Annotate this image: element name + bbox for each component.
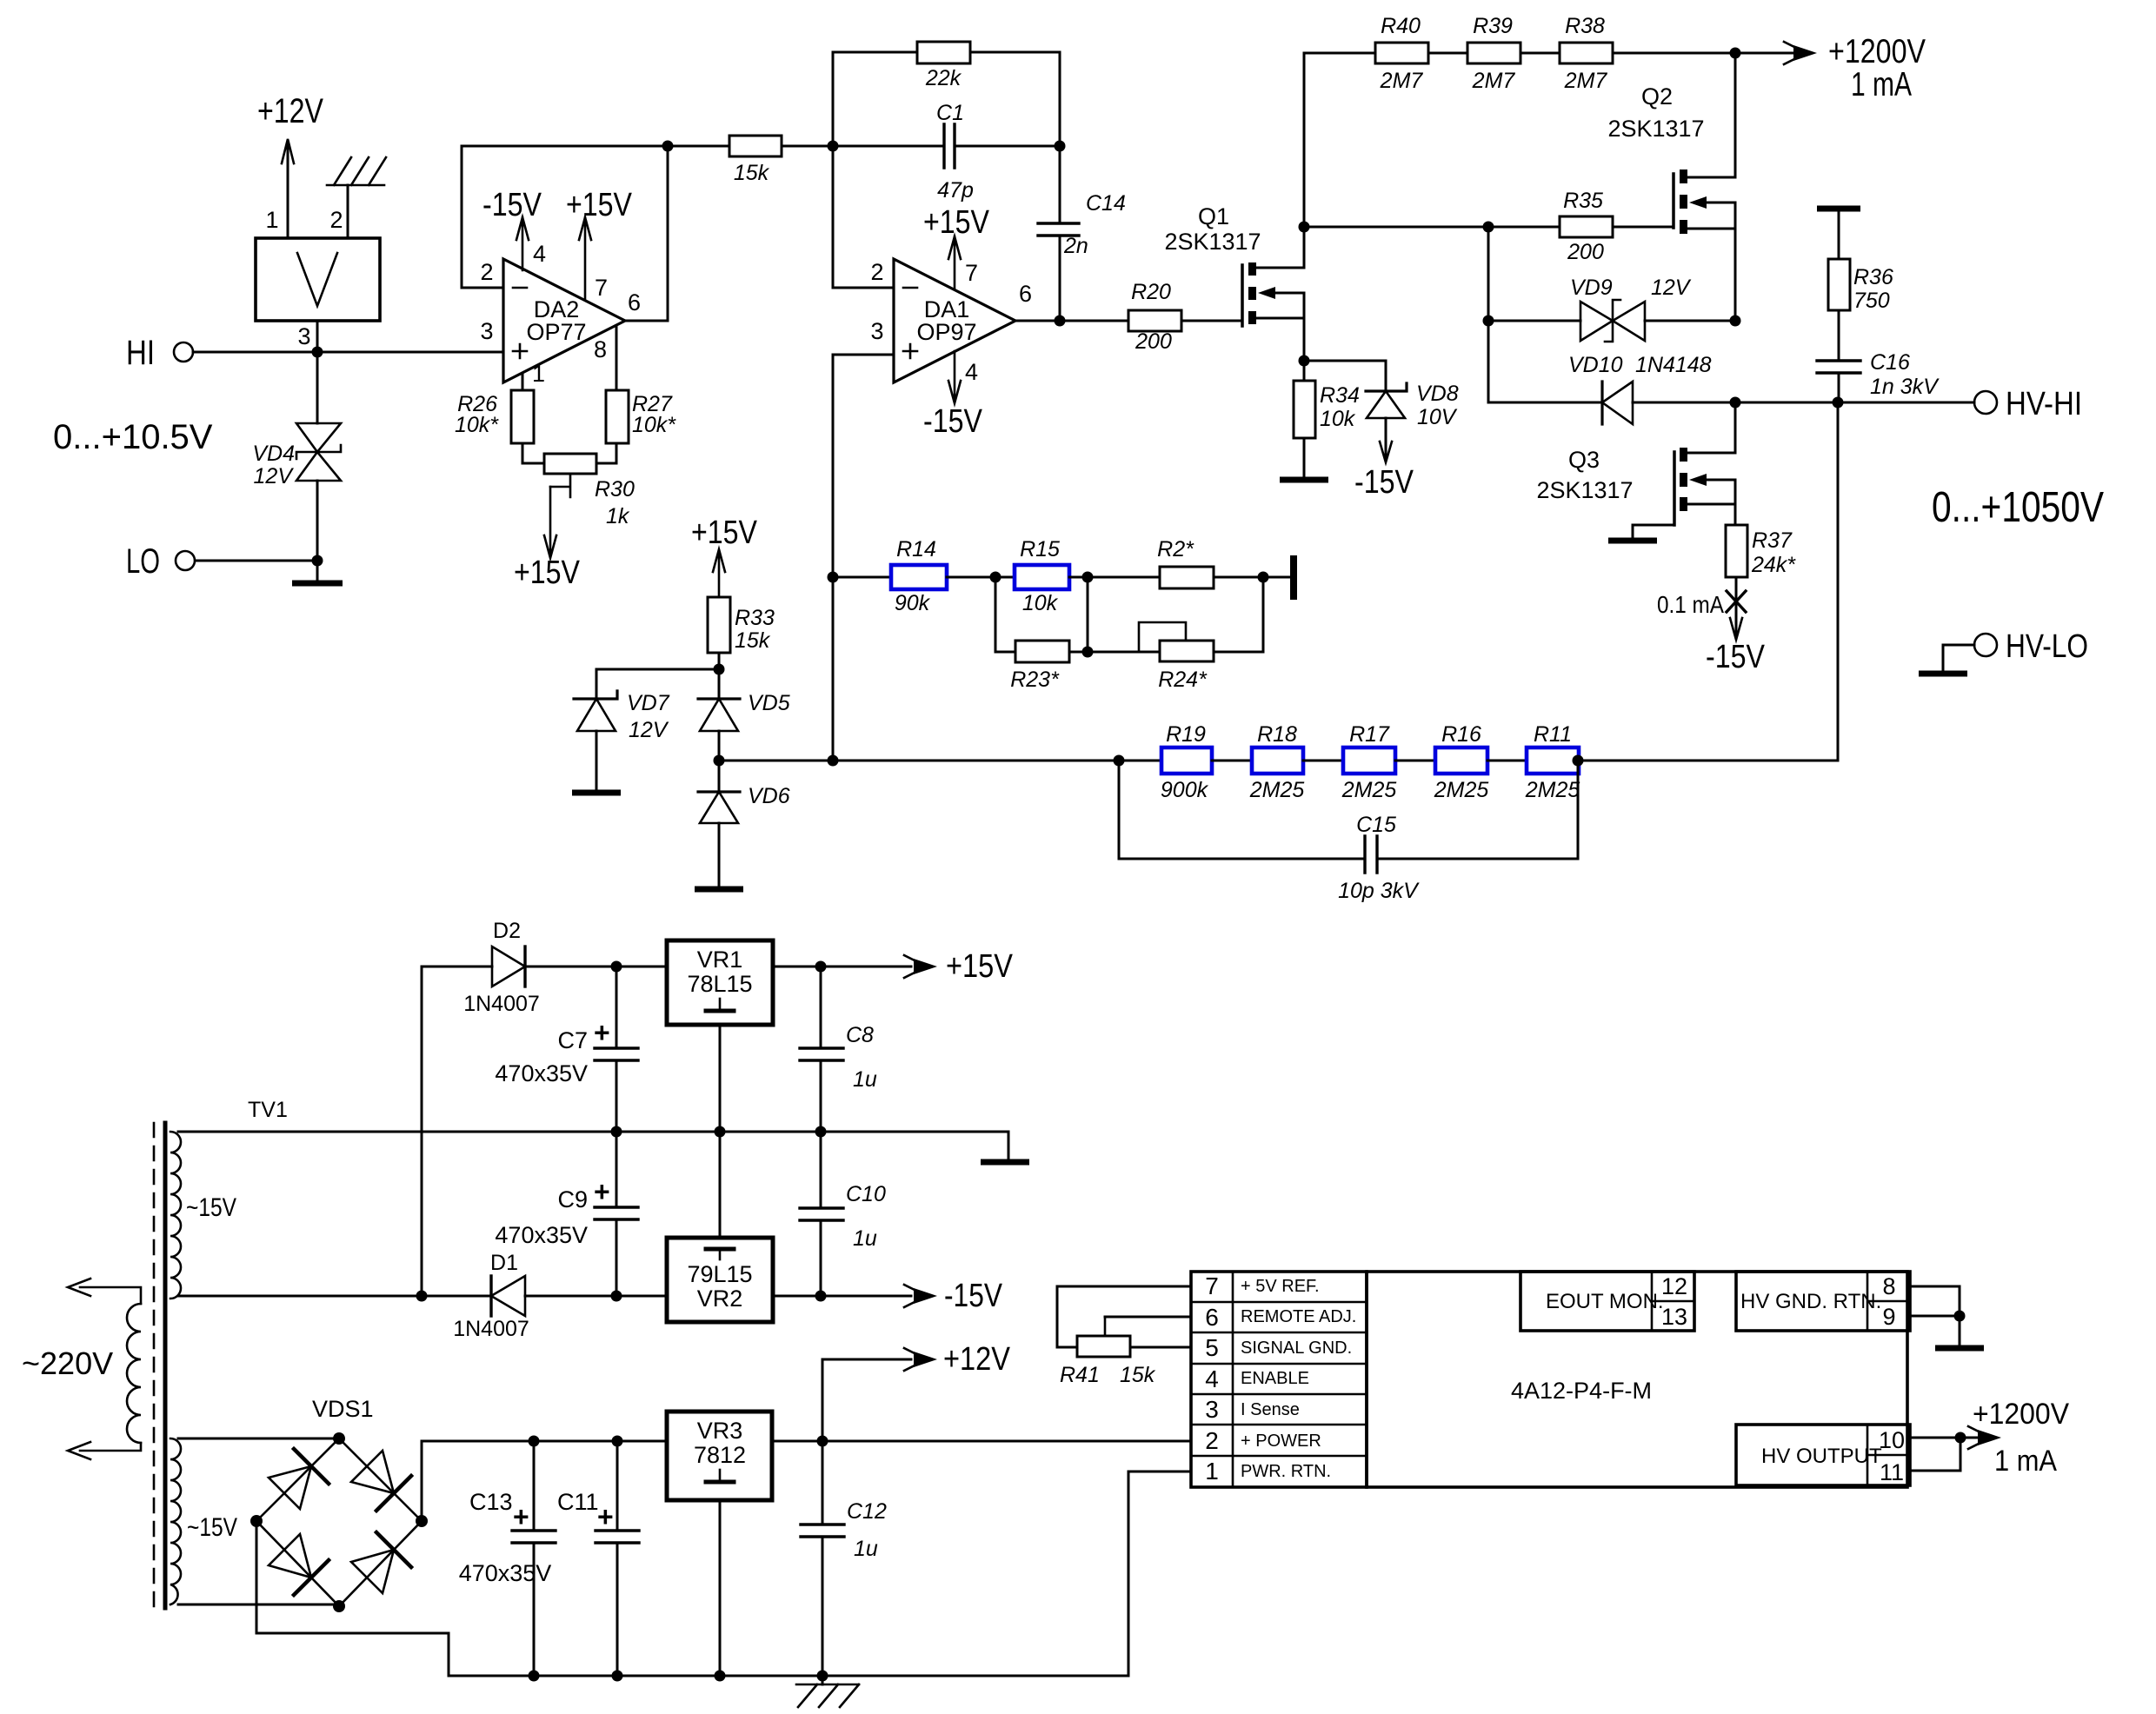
resistor R18 bbox=[1249, 722, 1305, 802]
junction dot C15 right bbox=[1573, 755, 1584, 767]
svg-text:7: 7 bbox=[1205, 1272, 1219, 1299]
node +12V rail label bbox=[257, 92, 323, 130]
svg-text:VR1: VR1 bbox=[697, 947, 743, 973]
svg-text:10V: 10V bbox=[1417, 405, 1458, 429]
wire winding to VDS1 top bbox=[178, 1438, 339, 1440]
svg-text:-15V: -15V bbox=[1354, 464, 1414, 501]
svg-text:0...+10.5V: 0...+10.5V bbox=[53, 418, 213, 456]
svg-text:+ POWER: + POWER bbox=[1241, 1432, 1321, 1451]
junction dot Q2 source node bbox=[1730, 316, 1741, 327]
svg-text:2M25: 2M25 bbox=[1525, 778, 1580, 802]
terminal HV-LO with ground bbox=[1919, 628, 2088, 674]
svg-text:1N4007: 1N4007 bbox=[463, 992, 540, 1016]
wire R19 row left bbox=[833, 760, 1161, 762]
svg-text:R36: R36 bbox=[1853, 265, 1893, 289]
svg-text:4: 4 bbox=[965, 359, 978, 385]
junction dot C13 top bbox=[529, 1436, 540, 1447]
svg-text:OP97: OP97 bbox=[916, 319, 976, 345]
SECTION: middle resistor networks bbox=[572, 515, 1838, 903]
junction dot divider left node bbox=[714, 755, 725, 767]
svg-text:VD8: VD8 bbox=[1416, 382, 1459, 406]
ground under VD7 bbox=[572, 731, 621, 793]
svg-text:PWR. RTN.: PWR. RTN. bbox=[1241, 1462, 1331, 1481]
junction dot DA2 feedback node bbox=[662, 141, 674, 152]
resistor R11 bbox=[1525, 722, 1580, 802]
wire to VD7 bbox=[596, 669, 719, 699]
wire node to DA1 pin2 bbox=[833, 146, 894, 288]
SECTION: module bbox=[1057, 1272, 2069, 1676]
svg-text:~15V: ~15V bbox=[187, 1513, 237, 1542]
svg-text:C1: C1 bbox=[936, 101, 964, 125]
svg-text:C12: C12 bbox=[847, 1499, 887, 1524]
svg-text:1u: 1u bbox=[854, 1537, 878, 1561]
svg-text:90k: 90k bbox=[895, 591, 931, 615]
svg-text:-15V: -15V bbox=[944, 1278, 1003, 1314]
pin 2 label bbox=[870, 259, 883, 285]
ground at Q3 gate bbox=[1608, 525, 1674, 541]
svg-text:C7: C7 bbox=[557, 1027, 588, 1053]
wire VD4 to LO node bbox=[316, 481, 319, 561]
wire R33 to VD5 bbox=[718, 653, 721, 699]
svg-text:R41: R41 bbox=[1060, 1363, 1100, 1387]
svg-text:-15V: -15V bbox=[923, 403, 983, 440]
svg-text:2n: 2n bbox=[1063, 234, 1088, 258]
chassis ground at V-box pin2 bbox=[327, 157, 386, 236]
pin 7 supply arrow to +15V bbox=[566, 187, 633, 301]
svg-text:C11: C11 bbox=[557, 1489, 599, 1515]
wire VR1 output bbox=[773, 966, 911, 968]
svg-text:EOUT MON.: EOUT MON. bbox=[1546, 1290, 1664, 1313]
svg-text:R23*: R23* bbox=[1010, 668, 1060, 692]
junction dot R14-R15 bbox=[990, 572, 1001, 583]
capacitor C13 bbox=[459, 1441, 556, 1676]
svg-text:2: 2 bbox=[870, 259, 883, 285]
ground bar under R34 bbox=[1280, 438, 1328, 480]
arrow +1200V 1 mA top bbox=[1735, 33, 1926, 103]
SECTION: DA2 bbox=[455, 141, 676, 592]
capacitor C15 bbox=[1119, 761, 1578, 903]
potentiometer R30 bbox=[544, 454, 635, 528]
svg-text:12V: 12V bbox=[254, 464, 295, 488]
svg-text:+ 5V REF.: + 5V REF. bbox=[1241, 1277, 1320, 1296]
resistor R20 bbox=[1128, 280, 1181, 354]
junction dot C7 bottom bbox=[611, 1126, 622, 1138]
svg-text:VD9: VD9 bbox=[1570, 276, 1613, 300]
wire bottom ground rail bbox=[449, 1675, 1128, 1677]
svg-text:C15: C15 bbox=[1356, 813, 1396, 837]
pin 2 + POWER bbox=[1205, 1427, 1321, 1454]
pin 7 + 5V REF. bbox=[1205, 1272, 1319, 1299]
svg-text:15k: 15k bbox=[734, 161, 770, 185]
svg-text:+1200V: +1200V bbox=[1973, 1398, 2069, 1431]
svg-text:VDS1: VDS1 bbox=[312, 1396, 374, 1422]
svg-text:R15: R15 bbox=[1020, 537, 1060, 561]
arrow +15V above R33 bbox=[691, 515, 758, 597]
resistor 22k feedback bbox=[833, 42, 1060, 146]
svg-text:C13: C13 bbox=[469, 1489, 513, 1515]
pin 6 label bbox=[628, 289, 641, 316]
capacitor C10 bbox=[800, 1132, 886, 1296]
wire VD10 row bbox=[1488, 321, 1735, 402]
bridge rectifier VDS1 bbox=[250, 1396, 428, 1612]
svg-text:R20: R20 bbox=[1131, 280, 1171, 304]
svg-text:10p 3kV: 10p 3kV bbox=[1338, 879, 1420, 903]
wire R19-R18 bbox=[1212, 760, 1252, 762]
wire VR1 ground lead bbox=[719, 1025, 722, 1132]
svg-text:+: + bbox=[597, 1501, 614, 1532]
terminal HI bbox=[126, 334, 193, 372]
svg-text:8: 8 bbox=[594, 336, 607, 362]
junction dot C7 top bbox=[611, 961, 622, 973]
svg-text:R37: R37 bbox=[1752, 528, 1793, 553]
svg-text:470x35V: 470x35V bbox=[459, 1560, 552, 1586]
wire pin10 pin11 output bbox=[1910, 1438, 1960, 1471]
junction dot VR gnd rail bbox=[715, 1126, 726, 1138]
resistor R2* bbox=[1157, 537, 1214, 588]
svg-text:2SK1317: 2SK1317 bbox=[1536, 477, 1633, 503]
bridge diode bottom-right bbox=[351, 1532, 411, 1593]
wire HV-HI row bbox=[1735, 402, 1974, 404]
wire feedback riser to divider bbox=[1837, 402, 1840, 761]
wire R16-R11 bbox=[1487, 760, 1527, 762]
wire VR3 ground lead bbox=[719, 1500, 722, 1676]
wire VR2 ground lead bbox=[719, 1132, 722, 1238]
svg-text:R24*: R24* bbox=[1158, 668, 1208, 692]
capacitor C12 bbox=[801, 1441, 887, 1676]
svg-text:R16: R16 bbox=[1441, 722, 1481, 747]
svg-text:2M7: 2M7 bbox=[1564, 69, 1608, 93]
transistor Q3 2SK1317 bbox=[1536, 402, 1735, 525]
chassis ground bottom bbox=[796, 1676, 859, 1707]
svg-text:R39: R39 bbox=[1473, 14, 1513, 38]
svg-text:12: 12 bbox=[1661, 1273, 1687, 1299]
svg-text:~220V: ~220V bbox=[22, 1345, 113, 1381]
svg-text:7: 7 bbox=[965, 260, 978, 286]
svg-text:10k: 10k bbox=[1320, 407, 1356, 431]
ground under VD6 bbox=[695, 823, 743, 889]
regulator VR3 7812 bbox=[667, 1412, 772, 1500]
zener VD9 bidirectional bbox=[1570, 276, 1692, 342]
wire R26 to R30 bbox=[522, 443, 544, 463]
svg-text:750: 750 bbox=[1853, 289, 1890, 313]
svg-text:13: 13 bbox=[1661, 1304, 1687, 1330]
svg-text:C10: C10 bbox=[846, 1182, 886, 1206]
resistor R34 bbox=[1294, 361, 1360, 438]
svg-text:2SK1317: 2SK1317 bbox=[1607, 116, 1704, 142]
junction dot pin9 bbox=[1954, 1311, 1966, 1322]
resistor R23* bbox=[1010, 641, 1069, 692]
transistor Q2 2SK1317 bbox=[1607, 53, 1735, 321]
svg-text:12V: 12V bbox=[1651, 276, 1692, 300]
resistor R15 bbox=[1015, 537, 1069, 615]
capacitor C16 bbox=[1817, 310, 1940, 402]
svg-text:2M25: 2M25 bbox=[1341, 778, 1397, 802]
svg-text:VD6: VD6 bbox=[748, 784, 790, 808]
svg-text:3: 3 bbox=[1205, 1396, 1219, 1423]
svg-text:7812: 7812 bbox=[694, 1442, 746, 1468]
SECTION: Q1 Q2 Q3 HV bbox=[1164, 14, 2104, 761]
svg-text:900k: 900k bbox=[1161, 778, 1209, 802]
svg-text:4: 4 bbox=[533, 241, 546, 267]
regulator VR1 78L15 bbox=[667, 940, 773, 1025]
junction dot R23 right bbox=[1082, 647, 1094, 658]
svg-text:R14: R14 bbox=[896, 537, 936, 561]
svg-text:Q3: Q3 bbox=[1568, 447, 1600, 473]
svg-text:470x35V: 470x35V bbox=[495, 1060, 588, 1086]
wire pin8 to R27 bbox=[616, 326, 618, 390]
wire R20 to Q1 gate bbox=[1181, 320, 1242, 322]
svg-text:1: 1 bbox=[265, 207, 278, 233]
capacitor C14 bbox=[1038, 146, 1126, 321]
wire VDS1 plus to VR3 row bbox=[422, 1441, 667, 1521]
junction dot R24 riser top bbox=[1258, 572, 1269, 583]
junction dot HV-HI at Q2/Q3 bbox=[1730, 397, 1741, 409]
junction dot DA1 inverting node bbox=[828, 141, 839, 152]
svg-text:1N4007: 1N4007 bbox=[453, 1317, 529, 1341]
svg-text:1 mA: 1 mA bbox=[1994, 1445, 2057, 1478]
EOUT MON. box pins 12 13 bbox=[1521, 1272, 1694, 1331]
wire HI to DA2 pin3 bbox=[193, 351, 503, 354]
arrow +12V output bbox=[822, 1341, 1011, 1441]
zener VD4 bidirectional bbox=[252, 423, 341, 488]
pin 2 label bbox=[480, 259, 493, 285]
junction dot C16 bottom bbox=[1833, 397, 1844, 409]
svg-text:2: 2 bbox=[1205, 1427, 1219, 1454]
ground bar HV GND bbox=[1935, 1345, 1984, 1352]
wire VDS1 minus to ground rail bbox=[256, 1521, 449, 1676]
pin 3 label bbox=[297, 323, 310, 349]
wire R2 to terminal bbox=[1214, 576, 1289, 579]
wire R18-R17 bbox=[1303, 760, 1343, 762]
junction dot +1200V node bbox=[1730, 48, 1741, 59]
svg-text:2M25: 2M25 bbox=[1434, 778, 1489, 802]
pin 6 REMOTE ADJ. bbox=[1205, 1304, 1356, 1331]
svg-text:200: 200 bbox=[1567, 240, 1604, 264]
zener VD8 bbox=[1304, 361, 1459, 459]
svg-text:15k: 15k bbox=[1120, 1363, 1156, 1387]
svg-text:+1200V: +1200V bbox=[1828, 33, 1926, 70]
resistor R16 bbox=[1434, 722, 1489, 802]
wire R41 wiper to pin6 bbox=[1105, 1316, 1191, 1319]
wire V-box pin1 to +12V arrow bbox=[282, 139, 294, 236]
svg-text:R18: R18 bbox=[1257, 722, 1297, 747]
svg-text:-15V: -15V bbox=[1706, 639, 1766, 675]
svg-text:R35: R35 bbox=[1563, 189, 1603, 213]
svg-text:11: 11 bbox=[1880, 1459, 1904, 1485]
pin 2 label bbox=[329, 207, 343, 233]
svg-text:1k: 1k bbox=[606, 504, 630, 528]
svg-text:HV-HI: HV-HI bbox=[2006, 386, 2082, 422]
svg-text:24k*: 24k* bbox=[1751, 553, 1796, 577]
ground stub center rail bbox=[981, 1132, 1029, 1162]
svg-text:1u: 1u bbox=[853, 1226, 877, 1251]
zener VD7 bbox=[574, 691, 670, 742]
svg-text:+: + bbox=[594, 1176, 610, 1207]
junction dot DA1 plus riser bottom bbox=[828, 755, 839, 767]
svg-text:SIGNAL GND.: SIGNAL GND. bbox=[1241, 1339, 1352, 1358]
svg-text:ENABLE: ENABLE bbox=[1241, 1369, 1309, 1388]
svg-text:10k: 10k bbox=[1022, 591, 1059, 615]
svg-text:3: 3 bbox=[870, 318, 883, 344]
resistor R37 bbox=[1726, 525, 1796, 577]
pin 1 label bbox=[532, 361, 545, 387]
junction dot C11 top bbox=[612, 1436, 623, 1447]
svg-text:2: 2 bbox=[329, 207, 343, 233]
svg-text:6: 6 bbox=[1019, 281, 1032, 307]
capacitor C9 bbox=[495, 1132, 638, 1296]
svg-text:+12V: +12V bbox=[257, 92, 323, 130]
resistor R26 bbox=[455, 390, 534, 443]
svg-text:VD4: VD4 bbox=[252, 442, 295, 466]
wire Q1 drain riser bbox=[1303, 53, 1306, 268]
pin 3 label bbox=[480, 318, 493, 344]
svg-text:10k*: 10k* bbox=[632, 413, 676, 437]
wire winding to VDS1 bottom bbox=[178, 1604, 339, 1606]
pin 4 supply arrow to -15V bbox=[923, 351, 983, 440]
svg-text:+15V: +15V bbox=[946, 948, 1014, 985]
resistor 15k input bbox=[668, 136, 833, 185]
svg-text:-15V: -15V bbox=[482, 187, 542, 223]
svg-text:78L15: 78L15 bbox=[687, 971, 752, 997]
junction dot DA1 output bbox=[1055, 316, 1066, 327]
svg-text:HV OUTPUT: HV OUTPUT bbox=[1761, 1445, 1882, 1468]
pin 7 supply arrow to +15V bbox=[923, 204, 990, 289]
terminal LO bbox=[126, 542, 195, 581]
svg-text:3: 3 bbox=[480, 318, 493, 344]
wire R14 row bbox=[719, 577, 891, 761]
svg-text:R30: R30 bbox=[595, 477, 635, 502]
svg-text:+15V: +15V bbox=[514, 555, 581, 591]
svg-text:7: 7 bbox=[595, 275, 608, 301]
bridge diode top-left bbox=[269, 1449, 329, 1509]
svg-text:4A12-P4-F-M: 4A12-P4-F-M bbox=[1511, 1378, 1652, 1404]
svg-text:R11: R11 bbox=[1534, 722, 1572, 747]
terminal HV-HI bbox=[1974, 386, 2082, 422]
pin 4 supply arrow to -15V bbox=[482, 187, 546, 270]
pin 5 SIGNAL GND. bbox=[1205, 1334, 1352, 1361]
svg-text:R17: R17 bbox=[1349, 722, 1390, 747]
svg-text:+15V: +15V bbox=[691, 515, 758, 551]
svg-text:1: 1 bbox=[532, 361, 545, 387]
junction dot riser bottom bbox=[416, 1291, 428, 1302]
svg-text:1: 1 bbox=[1205, 1458, 1219, 1485]
svg-text:12V: 12V bbox=[629, 718, 669, 742]
svg-text:10: 10 bbox=[1879, 1427, 1905, 1453]
wire R35 row bbox=[1304, 226, 1560, 229]
svg-text:79L15: 79L15 bbox=[687, 1261, 752, 1287]
pin 1 PWR. RTN. bbox=[1205, 1458, 1331, 1485]
wire center rail (top winding top tap) bbox=[178, 1131, 1008, 1133]
wiper arrow to +15V bbox=[514, 487, 581, 591]
svg-text:+15V: +15V bbox=[923, 204, 990, 241]
junction dot C15 left bbox=[1114, 755, 1125, 767]
svg-text:R38: R38 bbox=[1565, 14, 1605, 38]
svg-text:5: 5 bbox=[1205, 1334, 1219, 1361]
svg-text:22k: 22k bbox=[925, 66, 962, 90]
test point X 0.1 mA bbox=[1657, 577, 1746, 618]
svg-text:R33: R33 bbox=[735, 606, 775, 630]
svg-text:0.1 mA: 0.1 mA bbox=[1657, 591, 1724, 618]
wire R15 to R2 bbox=[1069, 576, 1160, 579]
wire pin8 pin9 to ground bbox=[1910, 1286, 1960, 1346]
svg-text:VR2: VR2 bbox=[697, 1285, 743, 1312]
svg-text:HV GND. RTN.: HV GND. RTN. bbox=[1740, 1290, 1881, 1313]
svg-text:8: 8 bbox=[1882, 1273, 1895, 1299]
svg-text:REMOTE ADJ.: REMOTE ADJ. bbox=[1241, 1307, 1356, 1326]
primary arrows ~220V bbox=[22, 1279, 141, 1459]
potentiometer R24* bbox=[1139, 622, 1214, 692]
bridge diode bottom-left bbox=[269, 1534, 329, 1595]
capacitor C11 bbox=[557, 1441, 639, 1676]
svg-text:2SK1317: 2SK1317 bbox=[1164, 229, 1261, 255]
wire VD9 row bbox=[1488, 227, 1735, 321]
svg-text:47p: 47p bbox=[937, 178, 974, 203]
resistor R27 bbox=[606, 390, 676, 443]
junction dot C8 top bbox=[815, 961, 827, 973]
pin 1 label bbox=[265, 207, 278, 233]
svg-text:3: 3 bbox=[297, 323, 310, 349]
svg-text:C16: C16 bbox=[1870, 350, 1910, 375]
transformer TV1 bbox=[127, 1098, 288, 1608]
svg-text:+12V: +12V bbox=[943, 1341, 1011, 1378]
junction dot VR3 gnd bbox=[715, 1671, 726, 1682]
potentiometer R41 bbox=[1060, 1317, 1156, 1387]
wire V-box pin3 down bbox=[316, 321, 319, 423]
arrow +1200V 1 mA bottom bbox=[1960, 1398, 2069, 1478]
bridge diode top-right bbox=[351, 1451, 411, 1511]
svg-text:2M7: 2M7 bbox=[1380, 69, 1424, 93]
junction dot VD9 left bbox=[1483, 316, 1494, 327]
svg-text:HV-LO: HV-LO bbox=[2006, 628, 2088, 665]
junction dot LO bbox=[312, 555, 323, 567]
label 0...+10.5V bbox=[53, 418, 213, 456]
wire DA2 feedback loop bbox=[462, 146, 668, 288]
wire R17-R16 bbox=[1395, 760, 1435, 762]
capacitor C7 bbox=[495, 967, 638, 1132]
junction dot C1 right bbox=[1055, 141, 1066, 152]
svg-text:R19: R19 bbox=[1166, 722, 1206, 747]
svg-text:OP77: OP77 bbox=[526, 319, 586, 345]
diode VD10 bbox=[1568, 353, 1712, 424]
svg-text:Q1: Q1 bbox=[1198, 203, 1229, 229]
voltmeter module V-box bbox=[256, 238, 380, 321]
pin 3 I Sense bbox=[1205, 1396, 1300, 1423]
svg-text:VR3: VR3 bbox=[697, 1418, 743, 1444]
diode VD5 bbox=[698, 691, 790, 761]
resistor R14 bbox=[891, 537, 947, 615]
svg-text:1 mA: 1 mA bbox=[1851, 66, 1912, 103]
svg-text:1N4148: 1N4148 bbox=[1635, 353, 1712, 377]
pin 3 label bbox=[870, 318, 883, 344]
svg-text:9: 9 bbox=[1882, 1304, 1895, 1330]
svg-text:4: 4 bbox=[1205, 1365, 1219, 1392]
svg-text:2M7: 2M7 bbox=[1472, 69, 1516, 93]
svg-text:D1: D1 bbox=[490, 1251, 518, 1275]
svg-text:VD7: VD7 bbox=[627, 691, 670, 715]
svg-text:1n 3kV: 1n 3kV bbox=[1870, 375, 1940, 399]
svg-text:C14: C14 bbox=[1086, 191, 1126, 216]
resistor R17 bbox=[1341, 722, 1397, 802]
svg-text:TV1: TV1 bbox=[248, 1098, 288, 1122]
arrow VD8 to -15V bbox=[1354, 442, 1414, 501]
SECTION: power supply bbox=[22, 919, 1191, 1707]
op-amp DA1 bbox=[894, 259, 1015, 382]
wire R11 to feedback riser bbox=[1579, 760, 1838, 762]
svg-text:470x35V: 470x35V bbox=[495, 1222, 588, 1248]
svg-text:LO: LO bbox=[126, 542, 160, 581]
resistor R35 bbox=[1560, 189, 1613, 264]
junction dot pin10 bbox=[1955, 1432, 1966, 1444]
